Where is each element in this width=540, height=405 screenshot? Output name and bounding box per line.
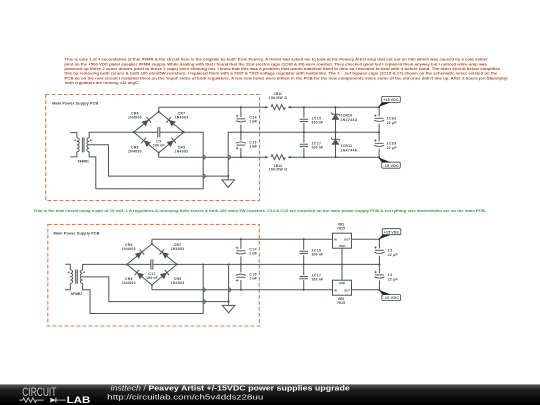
wire: XFMR1 primary bottom stub: [70, 152, 77, 157]
svg-text:1N4003: 1N4003: [128, 116, 142, 120]
transformer XFMR1: [77, 138, 79, 152]
svg-text:1N4003: 1N4003: [171, 247, 185, 251]
svg-text:22 µF: 22 µF: [387, 146, 397, 150]
wire: XFMR1 primary top stub: [70, 133, 77, 138]
regulator VR1 7815: [333, 233, 352, 248]
svg-text:1 mF: 1 mF: [249, 276, 257, 280]
svg-text:100 nF: 100 nF: [153, 144, 165, 148]
svg-text:powered up these 2 zener diode: powered up these 2 zener diodes (next to…: [64, 67, 500, 71]
wire: positive rail (top): [159, 106, 379, 108]
diode CR6 1N4003: [141, 117, 151, 127]
wire hop: negative rail over ground riser: [228, 155, 230, 159]
capacitor C14 1 mF (c2): [240, 239, 242, 290]
capacitor C17 100 nF (across AC, c2): [127, 263, 151, 265]
svg-text:100/5W Ω: 100/5W Ω: [269, 96, 288, 100]
diode CR9 1N4003 (c2): [160, 270, 170, 280]
capacitor 13 22 uF (c2): [378, 239, 380, 290]
svg-text:1N4003: 1N4003: [122, 281, 136, 285]
svg-text:OUT: OUT: [344, 289, 350, 293]
diode CR7 1N4003: [166, 117, 176, 127]
wire: XFMR2 center tap to ground line: [83, 277, 229, 302]
svg-text:GND: GND: [339, 244, 345, 248]
svg-text:LAB: LAB: [67, 396, 91, 405]
diode CR7 1N4003 (c2): [160, 249, 170, 259]
svg-text:XFMR2: XFMR2: [71, 292, 83, 296]
CircuitLab logo: LAB wordmark: [67, 396, 91, 405]
wire: XFMR2 secondary top to bridge left corner: [83, 264, 127, 270]
svg-text:1 mF: 1 mF: [249, 251, 257, 255]
wire: bridge top corner riser: [158, 107, 160, 112]
svg-text:22 µF: 22 µF: [387, 121, 397, 125]
capacitor 1C82 22 uF: [378, 107, 380, 157]
capacitor 1C15 100 nF: [303, 107, 305, 157]
svg-text:100 nF: 100 nF: [146, 276, 158, 280]
svg-text:100 nF: 100 nF: [312, 120, 324, 124]
wire: XFMR1 secondary bottom to bridge right corner: [89, 132, 203, 189]
svg-text:joint on the +500 VDC plate/ s: joint on the +500 VDC plate/ speaker XFM…: [63, 62, 487, 66]
svg-text:100 nF: 100 nF: [312, 145, 324, 149]
svg-text:CIRCUIT: CIRCUIT: [22, 385, 57, 399]
wire: ground riser and middle rail: [228, 132, 379, 176]
wire: negative rail (c2): [152, 289, 333, 291]
diode CR8 1N4003: [141, 138, 151, 148]
svg-text:This is the new circuit using: This is the new circuit using a pair of …: [34, 209, 487, 213]
svg-text:-15 VDC: -15 VDC: [383, 164, 399, 168]
svg-text:1 mF: 1 mF: [249, 144, 257, 148]
svg-text:1N4744A: 1N4744A: [341, 118, 358, 122]
wire: negative rail (bottom): [159, 156, 379, 158]
regulator VR2 7915: [333, 280, 352, 295]
ground symbol (circuit 1): [222, 176, 235, 187]
svg-text:22 µF: 22 µF: [388, 277, 398, 281]
zener diode 1CR10 1N4744A: [335, 107, 337, 132]
svg-text:1N4003: 1N4003: [175, 149, 189, 153]
svg-text:-15 VDC: -15 VDC: [384, 296, 400, 300]
svg-text:1C83: 1C83: [387, 142, 397, 146]
wire hop: riser over negative rail (c2): [203, 288, 205, 292]
svg-text:1C82: 1C82: [387, 116, 397, 120]
wire: XFMR1 secondary top to bridge left corner: [89, 132, 134, 138]
wire: bridge top corner riser (c2): [151, 239, 153, 244]
svg-text:1CR11: 1CR11: [341, 144, 353, 148]
CircuitLab logo: CIRCUIT wordmark: [22, 385, 57, 399]
wire: XFMR1 center tap to ground line: [89, 145, 228, 176]
bridge rectifier diamond (circuit 2): [127, 244, 177, 285]
svg-text:Main Power Supply PCB: Main Power Supply PCB: [54, 232, 100, 236]
zener diode 1CR11 1N4744A: [335, 132, 337, 157]
CircuitLab logo: resistor zigzag: [19, 398, 43, 402]
bridge rectifier diamond (circuit 1): [134, 112, 184, 153]
svg-text:1N4003: 1N4003: [171, 281, 185, 285]
svg-text:1N4003: 1N4003: [128, 149, 142, 153]
wire: XFMR2 secondary bottom riser to middle rail: [83, 264, 204, 313]
svg-text:both regulators are running <3: both regulators are running <32 degC.: [65, 81, 139, 85]
svg-text:GND: GND: [339, 281, 345, 285]
wire: ground riser (c2): [228, 264, 230, 301]
svg-text:this by removing both zeners &: this by removing both zeners & both 100 …: [64, 72, 497, 76]
wire: VR2 OUT to -15 VDC: [352, 289, 380, 291]
svg-text:+15 VDC: +15 VDC: [384, 230, 400, 234]
wire: XFMR2 primary bottom stub: [65, 283, 70, 290]
dashed box: Main Power Supply PCB (original circuit): [46, 95, 260, 201]
svg-text:insttech / Peavey Artist +/-15: insttech / Peavey Artist +/-15VDC power …: [111, 385, 350, 392]
svg-text:OUT: OUT: [344, 237, 350, 241]
wire: bridge bottom corner riser (c2): [151, 285, 153, 290]
wire: positive rail (c2): [152, 238, 333, 240]
svg-text:PCB so on the new circuit I in: PCB so on the new circuit I installed th…: [64, 76, 508, 80]
svg-text:7815: 7815: [337, 227, 345, 231]
svg-text:100/5W Ω: 100/5W Ω: [269, 168, 288, 172]
resistor 1R12 100/5W: [268, 154, 288, 161]
diode CR9 1N4003: [166, 138, 176, 148]
svg-text:13: 13: [388, 248, 392, 252]
capacitor 1C15 100 nF (c2): [303, 239, 305, 290]
svg-text:Main Power Supply PCB: Main Power Supply PCB: [52, 102, 98, 106]
wire: XFMR2 primary top stub: [65, 264, 70, 270]
capacitor C16 1 mF: [236, 140, 245, 148]
transformer XFMR2: [70, 270, 72, 283]
node -15 VDC (circuit 2): [379, 290, 392, 295]
svg-text:1CR10: 1CR10: [341, 114, 353, 118]
node +15 VDC (circuit 1): [378, 102, 391, 107]
CircuitLab logo: diode symbol: [50, 398, 56, 403]
capacitor C16 1 mF (c2): [236, 272, 245, 280]
svg-text:14: 14: [388, 273, 392, 277]
svg-text:22 µF: 22 µF: [388, 253, 398, 257]
capacitor C5 100 nF (across AC): [134, 131, 158, 133]
resistor 1R11 100/5W: [268, 104, 288, 111]
svg-text:http://circuitlab.com/ch5v4dds: http://circuitlab.com/ch5v4ddsz28uu: [107, 394, 263, 401]
ground symbol (circuit 2): [222, 302, 235, 313]
wire hop: AC riser over ground line: [203, 174, 205, 178]
wire: VR1 GND to middle rail: [341, 248, 343, 264]
svg-text:1N4744A: 1N4744A: [341, 148, 358, 152]
capacitor 14 22 uF (c2): [375, 273, 385, 280]
wire hop: AC riser over negative rail: [203, 155, 205, 159]
svg-text:1N4003: 1N4003: [175, 116, 189, 120]
wire: VR2 GND to middle rail: [341, 264, 343, 280]
svg-text:7915: 7915: [337, 301, 345, 305]
svg-text:100 nF: 100 nF: [312, 278, 324, 282]
node -15 VDC (circuit 1): [378, 157, 391, 162]
diode CR6 1N4003 (c2): [135, 249, 145, 259]
wire: VR1 OUT to +15 VDC: [352, 238, 380, 240]
node: ground junction dot: [227, 175, 229, 177]
svg-text:+15 VDC: +15 VDC: [383, 98, 399, 102]
capacitor C14 1 mF: [240, 107, 242, 157]
diode CR8 1N4003 (c2): [135, 270, 145, 280]
wire: bridge bottom corner riser: [158, 153, 160, 158]
node +15 VDC (circuit 2): [379, 235, 392, 240]
capacitor 1C17 100 nF (c2): [299, 275, 309, 280]
svg-text:1 mF: 1 mF: [249, 119, 257, 123]
capacitor 1C17 100 nF: [299, 143, 309, 148]
capacitor 1C83 22 uF: [374, 141, 384, 148]
wire: middle rail (c2): [177, 263, 380, 265]
svg-text:XFMR1: XFMR1: [77, 159, 89, 163]
wire hop: negative rail over ground riser (c2): [229, 288, 231, 292]
svg-text:This is only 1 of 4 secondarie: This is only 1 of 4 secondaries of this …: [64, 58, 488, 62]
dashed box: Main Power Supply PCB (new circuit): [48, 224, 259, 326]
wire hop: riser over ground line (c2): [203, 300, 205, 304]
svg-text:1N4003: 1N4003: [122, 247, 136, 251]
svg-text:100 nF: 100 nF: [312, 252, 324, 256]
